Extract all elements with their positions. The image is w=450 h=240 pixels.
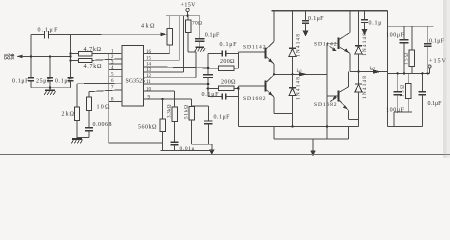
- svg-text:12: 12: [146, 74, 152, 79]
- capacitor C11 0.1uF rail decoupling 2: [361, 11, 382, 27]
- svg-text:4kΩ: 4kΩ: [141, 24, 155, 30]
- capacitor C10 0.1uF rail decoupling: [302, 11, 324, 24]
- wire to Q1bot base: [238, 85, 265, 87]
- diode D2 1N4148: [289, 74, 302, 126]
- wire pin 4 stub: [109, 69, 122, 71]
- svg-text:4.7kΩ: 4.7kΩ: [84, 64, 103, 70]
- wire pin 10: [144, 90, 175, 92]
- svg-text:100μF: 100μF: [386, 33, 405, 39]
- pin numbers 16-9: [146, 50, 152, 101]
- wire bottom ground rail: [161, 149, 212, 151]
- svg-text:0.01μ: 0.01μ: [180, 146, 195, 152]
- svg-text:SD1142: SD1142: [243, 44, 266, 50]
- resistor R6 10 ohm: [86, 90, 122, 128]
- svg-text:0.1μF: 0.1μF: [308, 16, 324, 22]
- wire pin 3 stub: [109, 63, 122, 65]
- wire bottom distribution: [394, 111, 412, 113]
- wire mid node: [388, 72, 430, 74]
- svg-text:0.1μF: 0.1μF: [205, 32, 220, 38]
- svg-text:0.1μF: 0.1μF: [12, 79, 29, 85]
- wire right section spine: [387, 11, 389, 127]
- svg-text:560kΩ: 560kΩ: [138, 125, 157, 131]
- resistor R1 4.7k: [71, 47, 123, 56]
- wire vertical riser x50: [49, 56, 51, 77]
- svg-text:200Ω: 200Ω: [221, 80, 236, 86]
- wire network2 joins: [237, 86, 239, 127]
- wire feedback input with left arrowhead: [17, 55, 23, 59]
- capacitor C7 0.1uF: [192, 106, 231, 144]
- wire pin 14 (drive feed to network 1): [144, 67, 209, 68]
- capacitor C2 0.1uF to ground: [12, 78, 34, 88]
- transistor Q3 SD1142 (bridge2 top): [314, 11, 350, 72]
- svg-text:0.1μF: 0.1μF: [202, 92, 220, 98]
- wire F to ground: [273, 127, 275, 139]
- ground G5 (arrow): [362, 23, 368, 36]
- svg-text:15Ω: 15Ω: [404, 53, 409, 65]
- wire pin 16: [144, 53, 170, 55]
- wire common cap bottom bus: [31, 87, 71, 89]
- svg-text:15: 15: [146, 57, 152, 62]
- resistor R11 200 ohm: [208, 80, 238, 91]
- svg-text:SD1682: SD1682: [243, 96, 266, 102]
- svg-text:SG3525: SG3525: [126, 79, 146, 85]
- svg-text:0.1μF: 0.1μF: [220, 42, 238, 48]
- node ia2 current arrow: [370, 65, 382, 73]
- svg-text:0.0068: 0.0068: [93, 122, 112, 128]
- node 反馈 (feedback input): [4, 53, 72, 61]
- svg-text:3.3kΩ: 3.3kΩ: [167, 104, 173, 118]
- wire top distribution: [388, 25, 434, 27]
- svg-text:0.1μF: 0.1μF: [55, 79, 72, 85]
- op-amp U1 SG3525 PWM controller: [122, 46, 145, 107]
- wire network1 joins: [207, 54, 209, 69]
- capacitor C15 0.1uF: [419, 72, 443, 126]
- node ia1 current arrow: [297, 68, 308, 77]
- resistor R12 15 ohm: [404, 26, 414, 73]
- resistor R9 51k: [184, 99, 215, 155]
- scan edge artifacts: [443, 0, 447, 158]
- diode D1 1N4148: [289, 11, 302, 75]
- potentiometer R3 4k: [141, 16, 172, 54]
- svg-text:13: 13: [146, 68, 152, 73]
- terminal +15V supply: [166, 3, 200, 17]
- resistor R10 200 ohm: [208, 59, 238, 70]
- resistor R7 560k: [138, 98, 165, 151]
- resistor R13 15 ohm: [401, 73, 411, 112]
- diode D4 1N4148: [355, 72, 368, 127]
- capacitor C14 100uF: [386, 72, 405, 113]
- svg-text:反馈: 反馈: [4, 53, 15, 61]
- ground G4 (arrow): [303, 23, 309, 36]
- ground G2: [195, 47, 205, 51]
- capacitor C6 0.0068: [77, 122, 112, 138]
- svg-text:0.1μF: 0.1μF: [428, 101, 443, 107]
- svg-text:16: 16: [146, 50, 152, 55]
- svg-text:100μF: 100μF: [386, 108, 405, 114]
- resistor R5 2k: [62, 83, 123, 138]
- capacitor C12 100uF: [386, 26, 408, 74]
- svg-text:25μF: 25μF: [36, 79, 51, 85]
- ground G3: [71, 139, 82, 144]
- svg-text:SD1682: SD1682: [314, 102, 337, 108]
- ground arrow G6: [310, 139, 316, 157]
- wire arrowhead into pot R3 wiper: [161, 32, 167, 36]
- svg-text:51kΩ: 51kΩ: [184, 105, 190, 119]
- resistor R4 470 ohm: [185, 16, 202, 78]
- svg-text:10Ω: 10Ω: [97, 105, 111, 111]
- wire pin 15: [144, 59, 180, 61]
- capacitor C9 0.1uF: [202, 92, 239, 99]
- wire pin 13: [144, 71, 184, 73]
- transistor Q2 SD1682 (bridge1 bottom): [243, 75, 293, 114]
- pin numbers 1-8: [111, 49, 114, 102]
- capacitor C13 0.1uF: [424, 26, 445, 74]
- wire bridge1 output: [274, 73, 327, 75]
- wire to Q1top base: [238, 51, 265, 53]
- transistor Q1 SD1142 (bridge1 top): [243, 11, 274, 75]
- resistor R2 4.7k: [71, 58, 123, 70]
- node junction A: [30, 55, 32, 57]
- resistor R8 3k: [167, 91, 195, 152]
- svg-text:0.1μ: 0.1μ: [369, 20, 382, 26]
- capacitor C5 0.1uF to ground: [195, 16, 220, 47]
- capacitor C4 0.1uF to ground: [55, 78, 73, 88]
- wire pin 12: [144, 77, 197, 79]
- svg-text:2kΩ: 2kΩ: [62, 112, 75, 118]
- wire vertical riser x70.5: [70, 34, 72, 77]
- diode D3 1N4148: [355, 11, 368, 72]
- ground G1: [44, 90, 55, 95]
- terminal +15V output: [428, 58, 447, 74]
- wire +15V top rail: [272, 10, 388, 12]
- wire top compensation line y34.4: [31, 33, 44, 35]
- wire left pin bus x108.7: [108, 53, 110, 143]
- svg-text:0.1μF: 0.1μF: [214, 115, 231, 121]
- svg-text:10: 10: [146, 87, 152, 92]
- wire bridge2 output: [350, 71, 388, 73]
- svg-text:+15V: +15V: [181, 3, 197, 9]
- svg-text:15Ω: 15Ω: [401, 85, 406, 97]
- capacitor C9v 0.1uF vertical between drive nodes: [203, 68, 213, 96]
- capacitor C8 0.1uF: [208, 42, 238, 56]
- svg-text:200Ω: 200Ω: [220, 59, 235, 65]
- wire bottom return: [388, 125, 423, 127]
- wire riser pin13 to +15V: [182, 16, 184, 72]
- wire bus bottom to ground rail: [109, 142, 163, 144]
- svg-text:4.7kΩ: 4.7kΩ: [84, 47, 102, 53]
- svg-text:SD1142: SD1142: [314, 41, 337, 47]
- wire pin 11 (drive feed to network 2): [144, 83, 209, 85]
- transistor Q4 SD1682 (bridge2 bottom): [314, 72, 359, 120]
- capacitor C3 25uF to ground: [36, 78, 53, 90]
- wire vertical riser x31 top loop: [30, 34, 32, 77]
- capacitor C1 0.1uF (series, top loop): [38, 28, 59, 39]
- wire riser pin15 to +15V: [179, 16, 181, 61]
- wire emitter return E: [239, 126, 359, 128]
- figure bottom border: [0, 154, 450, 156]
- wire pin 9: [144, 98, 192, 100]
- wire base bus bridge2: [326, 43, 328, 139]
- wire pin 8 stub: [109, 101, 122, 103]
- wire pin 5 stub: [109, 75, 122, 77]
